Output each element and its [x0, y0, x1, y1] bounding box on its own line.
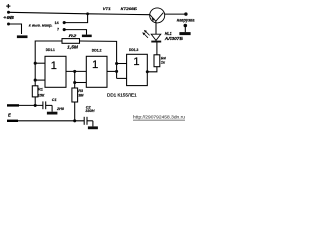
- svg-text:Е: Е: [8, 112, 11, 117]
- node DD1.2 input lower junction: [73, 81, 76, 84]
- capacitor C1: [42, 101, 44, 109]
- wire minus to ground: [9, 24, 22, 34]
- wire pin14 to rail: [64, 14, 87, 23]
- resistor R4: [154, 55, 160, 67]
- node load terminal lower: [184, 24, 188, 28]
- sensor electrode E lower: [7, 120, 18, 122]
- svg-text:R1: R1: [38, 87, 43, 91]
- svg-text:C1: C1: [52, 98, 57, 102]
- wire stub input1 DD1.1: [35, 62, 45, 64]
- wire electrode to C2: [18, 120, 84, 122]
- svg-text:3М: 3М: [78, 93, 84, 97]
- wire top rail from +9V to VT1: [9, 12, 150, 14]
- wire R1 bottom lead: [34, 97, 36, 106]
- wire DD1.1 output: [66, 70, 86, 72]
- svg-text:1: 1: [51, 60, 57, 72]
- svg-text:330Н: 330Н: [85, 109, 94, 113]
- svg-text:1: 1: [92, 59, 98, 71]
- svg-text:1: 1: [133, 56, 139, 68]
- ground (load): [179, 32, 190, 35]
- wire DD1.3 output to R4: [147, 67, 157, 72]
- wire stub input2 DD1.2: [75, 82, 87, 84]
- node junction DD1.1 out / R3: [73, 70, 76, 73]
- wire R3 bottom lead: [74, 102, 76, 121]
- gate DD1.1: [45, 56, 66, 87]
- node DD1.2 out junction: [115, 70, 118, 73]
- plus terminal symbol: [6, 4, 10, 8]
- wire R2 right lead down to DD1.3 inputs: [80, 41, 117, 78]
- gate DD1.2: [86, 56, 107, 87]
- svg-text:DD1.2: DD1.2: [92, 48, 102, 52]
- svg-text:14: 14: [55, 21, 59, 25]
- resistor R2: [62, 39, 80, 44]
- svg-text:2Н0: 2Н0: [56, 107, 65, 111]
- ground (supply minus): [17, 35, 28, 38]
- node DD1.1 input upper: [34, 62, 37, 65]
- wire VT1 to load terminal: [165, 13, 186, 15]
- node load terminal upper: [184, 12, 187, 15]
- ground (C2): [88, 126, 98, 129]
- node DD1.3 input1 junction: [115, 62, 118, 65]
- svg-text:7: 7: [57, 28, 59, 32]
- svg-text:АЛ307Б: АЛ307Б: [164, 36, 183, 41]
- svg-text:к выв. микр.: к выв. микр.: [29, 22, 53, 27]
- node rail junction for pin 14: [86, 12, 89, 15]
- wire R4 to LED cathode: [156, 42, 158, 54]
- wire stub input2 DD1.3: [117, 77, 127, 79]
- svg-text:DD1 К155ЛЕ1: DD1 К155ЛЕ1: [107, 92, 137, 97]
- sensor electrode E upper: [7, 104, 19, 106]
- resistor R3: [72, 88, 78, 102]
- wire load lower stub: [184, 26, 186, 33]
- node DD1.3 output: [146, 70, 149, 73]
- svg-text:15К: 15К: [38, 94, 45, 98]
- wire R2 left lead to DD1.1 input wire: [35, 41, 62, 86]
- LED HL1: [151, 41, 161, 43]
- wire pin7 to ground: [64, 30, 86, 35]
- wire stub input2 DD1.1: [35, 79, 45, 81]
- ground (C1): [47, 112, 58, 115]
- svg-text:R2: R2: [69, 33, 78, 38]
- capacitor C2: [83, 117, 85, 125]
- node pin14 terminal: [63, 21, 66, 24]
- wire stub input1 DD1.3: [117, 63, 127, 65]
- resistor R1: [32, 86, 38, 97]
- svg-text:КТ208Б: КТ208Б: [121, 6, 137, 11]
- svg-text:VT1: VT1: [103, 6, 112, 11]
- minus supply dot: [7, 23, 10, 26]
- node DD1.1 input lower: [34, 79, 37, 82]
- wire electrode to C1: [19, 104, 43, 106]
- wire center vertical to R3: [74, 71, 76, 88]
- node R3 / bottom wire junction: [73, 119, 76, 122]
- gate DD1.3: [127, 54, 148, 85]
- node R1 / C1 junction: [34, 104, 37, 107]
- svg-text:DD1.1: DD1.1: [46, 48, 55, 52]
- svg-text:http://290792458.3dn.ru: http://290792458.3dn.ru: [133, 115, 185, 120]
- svg-text:1,5М: 1,5М: [67, 45, 78, 50]
- node +9V supply dot: [7, 11, 10, 14]
- svg-text:DD1.3: DD1.3: [129, 48, 138, 52]
- transistor VT1: [150, 8, 165, 23]
- wire DD1.2 output: [107, 70, 117, 72]
- node pin7 terminal: [63, 28, 66, 31]
- svg-text:+9В: +9В: [3, 15, 15, 20]
- ground (pin 7): [82, 35, 92, 38]
- svg-text:нагрузка: нагрузка: [177, 17, 195, 22]
